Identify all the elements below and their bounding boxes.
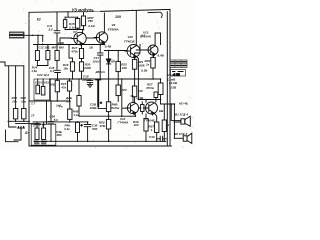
svg-text:100Б: 100Б <box>138 64 145 68</box>
svg-text:С25 0,033: С25 0,033 <box>35 81 49 85</box>
ground bus y141.3 <box>34 140 166 142</box>
capacitor C18 <box>87 80 93 82</box>
wire rail y101 <box>29 100 70 102</box>
wire T5 collector up <box>131 96 133 103</box>
wire C11 column x57 <box>56 12 58 45</box>
wire C15 bottom <box>57 73 59 79</box>
wire x15.6 down <box>15 66 17 109</box>
svg-text:5,0: 5,0 <box>49 27 54 31</box>
diode V8 Д521А <box>106 59 110 64</box>
svg-text:47к: 47к <box>60 86 66 90</box>
svg-text:1,4В: 1,4В <box>58 41 65 45</box>
svg-text:1Г 2Г 3Г: 1Г 2Г 3Г <box>33 124 45 128</box>
wire R39 stubs <box>145 114 147 141</box>
svg-text:47Ом: 47Ом <box>145 86 155 90</box>
transistor V7 <box>74 32 86 44</box>
svg-text:100: 100 <box>134 123 139 127</box>
wire x121.8 column <box>122 79 128 116</box>
wire speaker feed <box>161 100 181 139</box>
capacitor C36 <box>48 122 54 124</box>
speaker B1 <box>181 116 190 126</box>
sub-board box <box>34 79 50 100</box>
svg-text:51Ом: 51Ом <box>111 106 120 110</box>
wire diode column <box>108 51 110 80</box>
capacitor C41 <box>35 142 40 144</box>
svg-text:100: 100 <box>138 89 143 93</box>
resistor R48 51Ом <box>106 102 110 112</box>
wire y99.5 link <box>138 79 160 100</box>
wire R21 stubs <box>69 79 71 101</box>
resistor R25 lower <box>132 86 136 97</box>
wire R28 stubs <box>78 79 80 116</box>
wire rail y50.5 <box>104 50 127 52</box>
svg-text:В1 1ГД-4: В1 1ГД-4 <box>175 113 188 117</box>
svg-text:1к: 1к <box>146 63 150 67</box>
svg-text:10к: 10к <box>12 100 17 104</box>
wire C36 column <box>50 101 52 141</box>
wire main rail y44.5 <box>34 44 105 46</box>
wire subpanel feeds <box>33 122 52 128</box>
wire R24 top <box>135 53 140 59</box>
svg-text:2000: 2000 <box>83 66 91 70</box>
resistor R48b <box>42 128 46 140</box>
resistor R15 <box>75 19 79 29</box>
svg-text:С22 10,0: С22 10,0 <box>37 73 50 77</box>
transistor V9 КТ806А <box>96 32 107 43</box>
svg-text:209: 209 <box>114 15 121 19</box>
resistor R18 <box>55 50 59 60</box>
wire T1 collector stub <box>82 30 84 34</box>
resistor R22 220 <box>116 61 120 71</box>
wire R20 stubs <box>81 71 83 79</box>
resistor R27 47Ом <box>158 83 163 95</box>
capacitor C17 100,0 <box>97 53 103 55</box>
capacitor C12 <box>63 20 66 28</box>
wire sub-box feeds <box>38 79 51 101</box>
resistor R17 <box>79 49 83 59</box>
svg-text:13В: 13В <box>171 86 177 90</box>
legend box ВЫХ <box>170 60 187 67</box>
wire C12 stubs <box>64 17 66 29</box>
resistor R30 <box>41 86 45 95</box>
wire R24 mid stubs <box>134 69 136 102</box>
wire rail y116.2 <box>79 115 135 117</box>
capacitor C42 <box>41 142 46 144</box>
ground symbol <box>87 83 92 88</box>
wire T6 emitter down <box>154 113 157 141</box>
svg-text:680: 680 <box>57 133 62 137</box>
module title УЗ модуль <box>70 7 100 12</box>
resistor R20 2000 <box>79 62 83 71</box>
wire C18 gnd stub <box>89 79 91 80</box>
svg-text:2,1к: 2,1к <box>68 25 75 29</box>
svg-text:47В: 47В <box>99 124 106 128</box>
wire T5-T6 coupling stubs <box>139 102 143 114</box>
svg-text:200,0: 200,0 <box>81 78 90 82</box>
wire speaker2 feed <box>174 137 183 139</box>
bottom subpanel box <box>31 124 56 145</box>
svg-text:УЗ модуль: УЗ модуль <box>72 7 95 12</box>
transistor V10 ГТ403Б <box>127 45 140 58</box>
svg-text:Д521А: Д521А <box>95 70 105 74</box>
svg-text:ГТ403Б: ГТ403Б <box>124 39 135 43</box>
wire x46.5 column <box>46 101 48 124</box>
svg-text:3,3к: 3,3к <box>64 127 70 131</box>
wire R25 stubs <box>56 79 58 101</box>
svg-text:ГТ404Б: ГТ404Б <box>144 118 155 122</box>
connector X1 input <box>9 32 24 39</box>
svg-text:+: + <box>100 100 102 104</box>
svg-text:1,1к: 1,1к <box>73 113 79 117</box>
resistor R39 100 <box>144 119 148 132</box>
wire T4 collector up <box>155 33 160 46</box>
svg-text:КТ806А: КТ806А <box>108 27 119 31</box>
svg-text:7,7: 7,7 <box>31 102 36 106</box>
wire T2 emitter stub <box>103 42 105 44</box>
svg-text:470к: 470к <box>70 49 78 53</box>
resistor R47 <box>35 128 39 140</box>
wire x23.8 down <box>23 66 25 109</box>
wire T1 base branch <box>60 38 72 45</box>
wire C17 column <box>99 45 101 80</box>
resistor R16 МЛТ 750 <box>81 16 85 26</box>
wire node y121.9 <box>51 121 88 123</box>
svg-text:750: 750 <box>88 19 93 23</box>
resistor R28 <box>77 96 81 107</box>
wire main rail y79 <box>50 78 161 80</box>
wire elco bend <box>98 106 106 109</box>
svg-text:1,5к: 1,5к <box>31 69 37 73</box>
svg-text:15к: 15к <box>63 66 68 70</box>
wire T5 emitter down <box>134 113 136 117</box>
wire node y29.5 <box>65 29 83 31</box>
resistor R11 <box>22 109 26 119</box>
svg-text:17: 17 <box>31 113 35 117</box>
wire T6 collector top <box>145 100 147 103</box>
wire T3 emitter <box>136 56 138 79</box>
capacitor C40 <box>160 136 162 141</box>
wire R18 stubs <box>56 45 58 70</box>
svg-text:2,1В: 2,1В <box>87 24 95 28</box>
capacitor C15 0,1 <box>55 70 61 72</box>
svg-text:0,3: 0,3 <box>67 100 72 104</box>
wire T2 collector up <box>103 13 105 33</box>
legend box 1 3В <box>171 70 186 76</box>
resistor R37 1Ом <box>155 122 159 133</box>
wire T4 base <box>140 45 145 51</box>
wire T1-T2 link <box>86 37 96 39</box>
wire R27 stubs <box>160 79 162 100</box>
resistor R26 1к <box>151 58 155 69</box>
svg-text:100,0: 100,0 <box>93 60 101 64</box>
svg-text:0,1: 0,1 <box>50 69 55 73</box>
resistor R19 15к <box>70 62 74 71</box>
wire R-col x108.6 lower <box>108 79 110 141</box>
speaker B2 <box>183 133 192 143</box>
svg-text:500: 500 <box>92 127 97 131</box>
wire R10 R11 bottoms <box>8 119 30 121</box>
resistor R23 <box>116 85 120 96</box>
transistor V11 <box>127 102 138 113</box>
wire R16 stubs <box>83 12 85 30</box>
svg-text:дю: дю <box>41 139 46 143</box>
wire top rail y17 <box>65 12 78 17</box>
wire C40 stubs <box>157 138 166 140</box>
svg-text:220: 220 <box>121 66 127 70</box>
svg-text:МЛТ 680: МЛТ 680 <box>52 45 65 49</box>
transistor V13 КТ814А <box>148 45 158 55</box>
wire left margin input <box>0 62 24 127</box>
resistor R13 <box>46 51 50 60</box>
resistor R14 <box>35 51 39 61</box>
capacitor C11 <box>54 31 60 33</box>
wire elco bar <box>97 80 99 106</box>
wire C38 stubs <box>87 122 89 141</box>
svg-text:ГТ404А: ГТ404А <box>118 121 129 125</box>
resistor R29 <box>36 85 40 94</box>
wire R36 stub <box>155 98 157 103</box>
svg-text:6,4В: 6,4В <box>158 54 165 58</box>
svg-text:Р2Б: Р2Б <box>49 83 55 87</box>
wire R22 column <box>117 51 119 102</box>
svg-text:К2: К2 <box>37 18 41 22</box>
wire R45 stubs <box>69 101 71 122</box>
wire T4 emitter <box>153 54 155 57</box>
svg-text:5,0: 5,0 <box>54 118 59 122</box>
wire T3 collector <box>136 11 140 50</box>
resistor R25 47к <box>55 80 59 92</box>
wire R46 bottom <box>77 133 79 142</box>
resistor R46 3,3к <box>76 122 80 132</box>
resistor R50 <box>106 119 110 129</box>
wire R13 R14 stubs <box>37 45 48 66</box>
svg-text:0,4В: 0,4В <box>105 45 112 49</box>
svg-text:С12 10Б: С12 10Б <box>38 45 50 49</box>
wire R15 stubs <box>77 17 79 29</box>
wire input to frame <box>24 35 43 44</box>
transistor V12 ГТ404 <box>146 102 158 114</box>
svg-text:V9: V9 <box>112 23 116 27</box>
junction dots <box>15 29 175 142</box>
resistor coupling V11-V12 <box>141 105 144 112</box>
svg-text:100Б: 100Б <box>90 106 97 110</box>
svg-text:дю: дю <box>34 139 39 143</box>
resistor R21 <box>67 81 71 91</box>
wire R40 stubs <box>163 104 165 141</box>
svg-text:+21В: +21В <box>136 96 144 100</box>
resistor R24 100 <box>132 59 136 69</box>
svg-text:+: + <box>81 123 83 127</box>
svg-text:V7: V7 <box>73 30 77 34</box>
wire C13 stubs <box>42 35 44 44</box>
svg-text:0,1В: 0,1В <box>141 69 148 73</box>
wire R19 dogleg <box>69 45 73 80</box>
svg-text:КТ814А: КТ814А <box>140 35 151 39</box>
svg-text:10к: 10к <box>21 100 26 104</box>
capacitor C38 500 electrolytic <box>84 125 91 127</box>
svg-text:1Л 4Б: 1Л 4Б <box>167 73 175 77</box>
resistor R10 <box>13 109 17 119</box>
wire y123.4 link <box>16 123 40 125</box>
svg-text:С40: С40 <box>149 135 155 139</box>
svg-text:220: 220 <box>121 88 127 92</box>
svg-text:24,0В: 24,0В <box>168 81 178 85</box>
svg-text:1кБ: 1кБ <box>56 103 61 107</box>
electrolytic C24 <box>97 80 99 106</box>
plug ДУ jack <box>6 127 25 142</box>
wire R17 stubs <box>81 45 83 62</box>
resistor R40 <box>162 120 166 132</box>
wire R26 bottom <box>152 68 154 79</box>
svg-text:В2 1ГД-4: В2 1ГД-4 <box>174 132 187 136</box>
svg-text:НО 4Б: НО 4Б <box>179 102 188 106</box>
wire T1 emitter stub <box>82 43 83 46</box>
resistor R45 <box>68 109 72 119</box>
resistor R36 <box>154 92 158 98</box>
